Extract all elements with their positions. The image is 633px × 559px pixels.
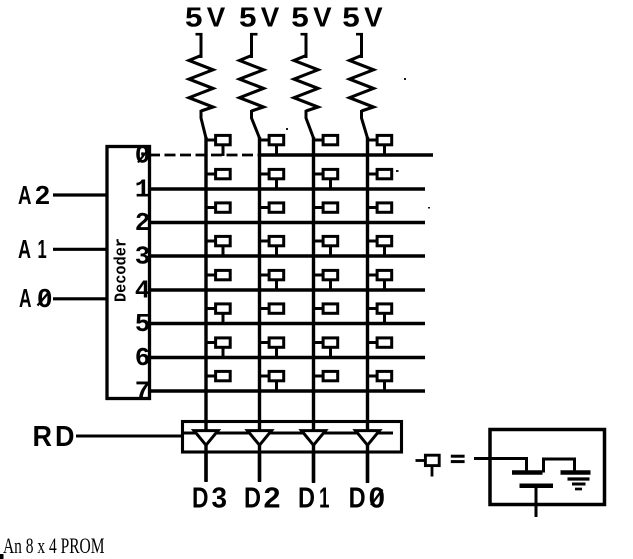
MOS transistor cell row 0 col D1 (no connection) (313, 135, 338, 144)
decoder output pin label 2 (135, 208, 151, 238)
wire: resistor to bit line D1 (306, 110, 314, 138)
legend equivalent-circuit box (490, 430, 605, 505)
wire: 5V supply lead into resistor (column D3) (196, 33, 203, 58)
svg-text:2: 2 (135, 208, 151, 238)
svg-text:V: V (261, 2, 280, 33)
MOS transistor cell row 0 col D2 (programmed, gate stem to word line) (259, 135, 284, 156)
legend transistor source plate (520, 484, 554, 489)
MOS transistor cell row 2 col D3 (no connection) (205, 203, 230, 212)
resistor pull-up (column D1) (294, 56, 318, 112)
input label A2 (18, 180, 50, 210)
decoder output pin label 1 (135, 175, 151, 205)
MOS transistor cell row 4 col D2 (programmed, gate stem to word line) (259, 270, 284, 291)
tri-state buffer (column D0) (356, 431, 380, 446)
MOS transistor cell row 1 col D3 (no connection) (205, 169, 230, 178)
MOS transistor cell row 1 col D2 (programmed, gate stem to word line) (259, 169, 284, 190)
output label D3 (192, 482, 227, 514)
resistor pull-up (column D2) (240, 56, 264, 112)
decoder output pin label 0 (135, 141, 151, 171)
wire: bit line D3 through buffer box to output (204, 420, 207, 481)
output label D0 (349, 482, 385, 514)
svg-text:2: 2 (35, 180, 50, 210)
MOS transistor cell row 0 col D3 (programmed, gate stem to word line) (205, 135, 230, 156)
svg-text:V: V (364, 2, 383, 33)
decoder output pin label 6 (135, 343, 151, 373)
power label 5V (column D3) (185, 2, 226, 33)
svg-text:Decoder: Decoder (113, 238, 132, 302)
wire: 5V supply lead into resistor (column D2) (250, 33, 258, 58)
wire: resistor to bit line D0 (362, 110, 368, 138)
wire: word line 6 (decoder output row) (149, 356, 425, 360)
wire: address input A2 to decoder (53, 193, 108, 196)
legend equals sign (451, 456, 465, 461)
legend transistor channel bar (grounded side) (561, 470, 591, 475)
wire: word line 4 (decoder output row) (149, 288, 425, 292)
input label A1 (18, 234, 47, 264)
svg-text:5: 5 (185, 2, 203, 33)
wire: legend transistor gate lead (489, 459, 527, 471)
MOS transistor cell row 7 col D0 (programmed, gate stem to word line) (367, 371, 392, 392)
wire: 5V supply lead into resistor (column D1) (301, 33, 308, 58)
MOS transistor cell row 6 col D1 (programmed, gate stem to word line) (313, 338, 338, 359)
wire: enable line through buffers (182, 432, 393, 435)
svg-text:5: 5 (342, 2, 360, 33)
wire: word line 2 (decoder output row) (149, 221, 425, 225)
decoder U1 box (107, 147, 150, 399)
MOS transistor cell row 3 col D1 (programmed, gate stem to word line) (313, 236, 338, 257)
svg-text:D: D (55, 421, 75, 453)
wire: resistor to bit line D3 (201, 110, 206, 138)
svg-text:3: 3 (135, 242, 151, 272)
svg-text:4: 4 (135, 276, 151, 306)
output label D2 (244, 482, 281, 514)
tri-state buffer (column D2) (248, 431, 272, 446)
decoder output pin label 4 (135, 276, 151, 306)
decoder output pin label 5 (135, 309, 151, 339)
scan speck artifacts (286, 78, 430, 209)
wire: bit line D3 (vertical column) (204, 137, 207, 482)
MOS transistor cell row 4 col D1 (programmed, gate stem to word line) (313, 270, 338, 291)
svg-text:5: 5 (291, 2, 309, 33)
wire: bit line D1 through buffer box to output (312, 420, 315, 483)
svg-text:5: 5 (239, 2, 257, 33)
power label 5V (column D2) (239, 2, 280, 33)
wire: word line 1 (decoder output row) (149, 187, 425, 191)
legend cell symbol (square with gate hook and stem) (416, 455, 440, 476)
legend transistor gate bar (512, 470, 543, 475)
svg-text:R: R (33, 421, 53, 453)
MOS transistor cell row 3 col D2 (programmed, gate stem to word line) (259, 236, 284, 257)
MOS transistor cell row 5 col D2 (no connection) (259, 304, 284, 313)
output buffer box (183, 422, 402, 453)
resistor pull-up (column D3) (189, 56, 213, 112)
wire: bit line D1 (vertical column) (312, 137, 315, 482)
decoder output pin label 3 (135, 242, 151, 272)
MOS transistor cell row 5 col D1 (no connection) (313, 304, 338, 313)
svg-text:A: A (18, 180, 32, 210)
MOS transistor cell row 7 col D3 (no connection) (205, 371, 230, 380)
MOS transistor cell row 4 col D0 (programmed, gate stem to word line) (367, 270, 392, 291)
wire: address input A0 to decoder (53, 297, 108, 300)
wire: address input A1 to decoder (53, 248, 108, 251)
MOS transistor cell row 4 col D3 (no connection) (205, 270, 230, 279)
tri-state buffer (column D1) (302, 431, 326, 446)
svg-text:V: V (207, 2, 226, 33)
power label 5V (column D0) (342, 2, 383, 33)
svg-text:V: V (313, 2, 332, 33)
wire: bit line D2 through buffer box to output (258, 420, 261, 481)
wire: bit line D2 (vertical column) (258, 137, 261, 482)
svg-text:1: 1 (135, 175, 151, 205)
svg-text:3: 3 (212, 482, 228, 514)
svg-text:An 8 x 4 PROM: An 8 x 4 PROM (3, 533, 105, 558)
svg-text:6: 6 (135, 343, 151, 373)
MOS transistor cell row 7 col D2 (programmed, gate stem to word line) (259, 371, 284, 392)
ground symbol (568, 479, 590, 489)
MOS transistor cell row 6 col D0 (no connection) (367, 338, 392, 347)
svg-text:D: D (298, 482, 315, 514)
MOS transistor cell row 2 col D1 (no connection) (313, 203, 338, 212)
MOS transistor cell row 5 col D0 (programmed, gate stem to word line) (367, 304, 392, 325)
MOS transistor cell row 1 col D1 (programmed, gate stem to word line) (313, 169, 338, 190)
svg-text:1: 1 (319, 482, 330, 514)
tri-state buffer (column D3) (194, 431, 218, 446)
power label 5V (column D1) (291, 2, 332, 33)
svg-text:A: A (18, 234, 31, 264)
wire: legend transistor drain loop (544, 459, 575, 473)
MOS transistor cell row 2 col D0 (no connection) (367, 203, 392, 212)
wire: RD to output buffer enable (76, 435, 182, 438)
MOS transistor cell row 6 col D3 (programmed, gate stem to word line) (205, 338, 230, 359)
wire: bit line D0 (vertical column) (366, 137, 369, 482)
wire: word line 7 (decoder output row) (149, 389, 425, 393)
MOS transistor cell row 7 col D1 (no connection) (313, 371, 338, 380)
page-edge artifact mark (0, 554, 4, 559)
input label RD (read enable) (33, 421, 75, 453)
svg-text:5: 5 (135, 309, 151, 339)
svg-text:1: 1 (38, 234, 47, 264)
wire: resistor to bit line D2 (252, 110, 260, 138)
MOS transistor cell row 1 col D0 (no connection) (367, 169, 392, 178)
MOS transistor cell row 0 col D0 (programmed, gate stem to word line) (367, 135, 392, 156)
MOS transistor cell row 6 col D2 (programmed, gate stem to word line) (259, 338, 284, 359)
wire: 5V supply lead into resistor (column D0) (356, 33, 363, 58)
svg-text:A: A (19, 283, 32, 313)
output label D1 (298, 482, 330, 514)
MOS transistor cell row 5 col D3 (programmed, gate stem to word line) (205, 304, 230, 325)
wire: word line 3 (decoder output row) (149, 254, 425, 258)
input label A0 (19, 283, 52, 313)
svg-text:D: D (349, 482, 366, 514)
wire: legend lead into equivalent-circuit box (474, 457, 490, 460)
resistor pull-up (column D0) (350, 56, 374, 112)
svg-text:D: D (192, 482, 209, 514)
wire: word line 0 (decoder output row) (149, 154, 433, 157)
wire: word line 5 (decoder output row) (149, 322, 425, 326)
MOS transistor cell row 3 col D3 (programmed, gate stem to word line) (205, 236, 230, 257)
decoder output pin label 7 (135, 377, 151, 407)
wire: bit line D0 through buffer box to output (366, 420, 369, 483)
svg-text:2: 2 (264, 482, 281, 514)
svg-text:7: 7 (135, 377, 151, 407)
MOS transistor cell row 3 col D0 (programmed, gate stem to word line) (367, 236, 392, 257)
wire: legend source stem out of box (535, 487, 538, 517)
svg-text:D: D (244, 482, 261, 514)
MOS transistor cell row 2 col D2 (no connection) (259, 203, 284, 212)
